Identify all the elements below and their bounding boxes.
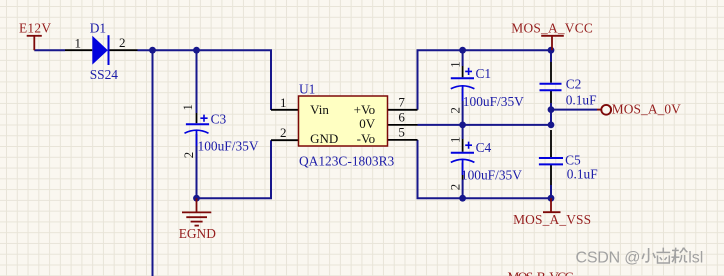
svg-text:1: 1 — [448, 61, 462, 67]
svg-text:C4: C4 — [476, 140, 492, 155]
svg-text:-Vo: -Vo — [357, 131, 376, 146]
svg-text:1: 1 — [181, 104, 195, 110]
svg-text:D1: D1 — [90, 21, 106, 36]
svg-text:100uF/35V: 100uF/35V — [463, 94, 524, 109]
svg-text:GND: GND — [310, 131, 338, 146]
svg-text:C2: C2 — [566, 77, 582, 92]
svg-text:6: 6 — [398, 109, 405, 124]
svg-text:MOS_A_VSS: MOS_A_VSS — [513, 212, 591, 227]
svg-text:EGND: EGND — [179, 226, 217, 241]
svg-text:lsl: lsl — [688, 249, 703, 266]
svg-text:SS24: SS24 — [90, 67, 119, 82]
svg-text:0.1uF: 0.1uF — [566, 93, 597, 108]
svg-text:7: 7 — [398, 94, 405, 109]
svg-text:0V: 0V — [359, 116, 376, 131]
svg-text:MOS_B_VCC: MOS_B_VCC — [508, 269, 574, 276]
svg-text:1: 1 — [449, 137, 463, 143]
svg-text:C1: C1 — [476, 66, 492, 81]
svg-text:C3: C3 — [211, 111, 227, 126]
svg-text:+Vo: +Vo — [354, 102, 376, 117]
svg-text:QA123C-1803R3: QA123C-1803R3 — [299, 154, 395, 169]
svg-text:Vin: Vin — [310, 102, 329, 117]
svg-text:2: 2 — [280, 125, 287, 140]
svg-text:C5: C5 — [565, 153, 581, 168]
svg-text:MOS_A_0V: MOS_A_0V — [612, 102, 681, 117]
svg-text:2: 2 — [449, 184, 463, 190]
svg-text:E12V: E12V — [19, 21, 51, 36]
svg-text:1: 1 — [280, 95, 287, 110]
svg-text:MOS_A_VCC: MOS_A_VCC — [511, 20, 593, 35]
svg-text:100uF/35V: 100uF/35V — [461, 168, 522, 183]
svg-text:U1: U1 — [299, 82, 315, 97]
svg-text:5: 5 — [398, 124, 405, 139]
svg-text:CSDN @: CSDN @ — [576, 249, 641, 266]
svg-text:1: 1 — [75, 35, 82, 50]
svg-text:2: 2 — [119, 35, 126, 50]
svg-text:2: 2 — [448, 107, 462, 113]
svg-text:2: 2 — [182, 152, 196, 158]
svg-text:100uF/35V: 100uF/35V — [198, 139, 259, 154]
svg-text:0.1uF: 0.1uF — [567, 167, 598, 182]
